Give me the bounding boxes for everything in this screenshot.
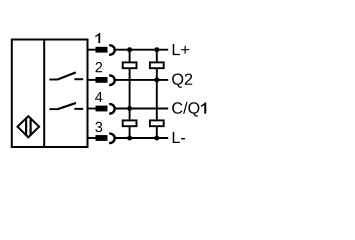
- wire L-: [115, 137, 168, 139]
- wire pin 1 stub: [88, 49, 97, 51]
- wire L+: [115, 49, 168, 51]
- inductive sensor symbol: [18, 116, 40, 137]
- right rail upper segment: [156, 50, 158, 63]
- wire Q2: [115, 79, 168, 81]
- pin 3 socket contact: [109, 134, 115, 143]
- pin 2 plug contact: [96, 77, 108, 83]
- junction L+ left: [127, 47, 132, 52]
- junction L- right: [154, 136, 159, 141]
- protection element left lower: [123, 120, 137, 126]
- pin 4 plug contact: [96, 106, 108, 112]
- wire C/Q1: [115, 108, 168, 110]
- net label L-: [173, 132, 185, 143]
- pin 4 socket contact: [109, 104, 115, 113]
- net label L+: [173, 44, 189, 55]
- switch contact C/Q1: [49, 103, 83, 109]
- protection element right lower: [150, 120, 164, 126]
- pin 1 label: [95, 33, 100, 43]
- net label C/Q1: [172, 102, 206, 117]
- junction L+ right: [154, 47, 159, 52]
- right rail middle segment: [156, 68, 158, 120]
- pin 2 label: [95, 62, 102, 72]
- net label Q2: [172, 73, 192, 87]
- protection element left upper: [123, 62, 137, 68]
- wire pin 3 stub: [88, 137, 97, 139]
- left rail lower segment: [129, 126, 131, 138]
- right rail lower segment: [156, 126, 158, 138]
- junction Q2 right: [154, 77, 159, 82]
- wire pin 2 stub: [88, 79, 97, 81]
- wire pin 4 stub: [88, 108, 97, 110]
- housing divider: [43, 39, 45, 149]
- switch contact Q2: [49, 72, 83, 79]
- pin 1 plug contact: [96, 47, 108, 53]
- pin 1 socket contact: [109, 45, 115, 54]
- left rail upper segment: [129, 50, 131, 63]
- pin 3 plug contact: [96, 135, 108, 141]
- pin 3 label: [95, 122, 102, 132]
- pin 2 socket contact: [109, 76, 115, 85]
- pin 4 label: [95, 92, 102, 102]
- left rail middle segment: [129, 68, 131, 120]
- protection element right upper: [150, 62, 164, 68]
- sensor housing outline: [12, 40, 88, 148]
- junction C/Q1 left: [127, 106, 132, 111]
- junction L- left: [127, 136, 132, 141]
